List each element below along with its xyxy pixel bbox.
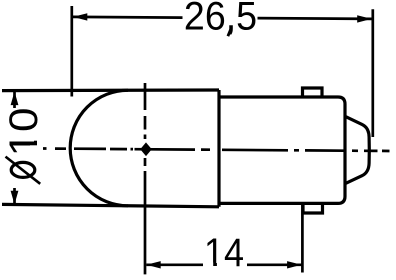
glass envelope bottom line with ø10 extension <box>2 204 219 206</box>
arrowhead left of 14 <box>146 261 160 268</box>
glass envelope top line with ø10 extension <box>2 88 219 92</box>
contact tip cone and dome <box>345 116 369 183</box>
light center dot <box>141 144 151 155</box>
dimension line 26,5 right segment <box>258 17 372 20</box>
horizontal centerline (dash-dot) <box>43 149 390 152</box>
patch: remove serif foot of rotated digit 1 <box>32 132 38 141</box>
dimension line 14 left segment <box>146 263 203 266</box>
dimension line 14 right segment <box>247 263 302 266</box>
base shell (socket body) <box>219 97 345 203</box>
bayonet pin top <box>303 88 323 96</box>
extension line right (14) <box>301 204 304 273</box>
arrowhead right of 26,5 <box>357 15 371 22</box>
extension line right (26,5) <box>371 9 374 137</box>
light center extension line down to 14 dimension <box>144 171 147 274</box>
svg-text:10: 10 <box>1 108 46 157</box>
arrowhead right of 14 <box>287 261 301 268</box>
dimension line 26,5 left segment <box>73 16 183 19</box>
svg-text:14: 14 <box>204 231 244 275</box>
extension line left (26,5) <box>70 6 73 97</box>
glass envelope dome <box>70 90 128 206</box>
comma tail extension of 26,5 <box>228 30 231 37</box>
arrowhead left of 26,5 <box>73 13 87 20</box>
svg-text:26,5: 26,5 <box>184 0 257 39</box>
bayonet pin bottom <box>303 203 323 213</box>
vertical centerline of light center <box>144 83 147 110</box>
dimension ø10 bottom arrow <box>13 188 16 204</box>
dimension ø10 top arrow <box>13 92 16 109</box>
diameter symbol ø of label <box>11 162 35 177</box>
patch: remove serif foot of digit 1 <box>206 263 214 268</box>
glass to base junction <box>217 90 220 207</box>
